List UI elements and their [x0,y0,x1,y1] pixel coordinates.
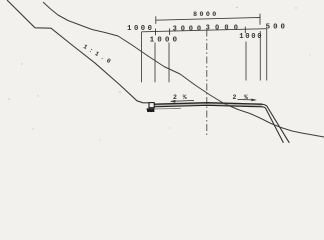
svg-text:1000: 1000 [127,25,154,33]
svg-text:2%: 2% [173,94,193,101]
svg-text:1000: 1000 [150,37,181,45]
svg-text:1000: 1000 [239,33,263,41]
svg-text:8000: 8000 [193,11,218,18]
svg-text:3000: 3000 [173,25,205,33]
svg-text:3000: 3000 [206,25,244,33]
svg-text:2%: 2% [232,94,255,101]
svg-text:500: 500 [266,23,288,31]
